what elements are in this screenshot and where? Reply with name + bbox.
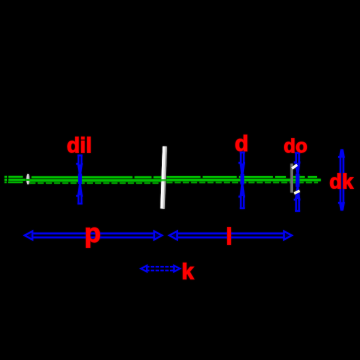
svg-text:k: k	[182, 259, 195, 284]
break tick bottom (white)	[294, 191, 299, 194]
focal plane gray bar	[290, 164, 293, 193]
svg-text:p: p	[84, 218, 101, 248]
beam axis line (left)	[5, 179, 26, 181]
break tick top (white)	[292, 165, 297, 169]
dimension arrow k (horizontal, small, below)	[141, 266, 180, 272]
beam top edge (right, part 2)	[293, 176, 317, 178]
dimension arrow do (vertical, at focal plane)	[294, 153, 301, 211]
main lens	[160, 146, 166, 209]
small collimating lens	[26, 174, 29, 185]
beam axis (right, bright)	[167, 179, 321, 181]
beam axis across main lens (faint)	[161, 179, 167, 181]
svg-text:l: l	[226, 223, 232, 249]
beam through small lens	[26, 179, 30, 181]
beam bottom edge (left)	[5, 181, 23, 183]
beam top edge (left)	[5, 176, 23, 178]
dimension arrow p (horizontal, left)	[25, 231, 162, 239]
dimension arrow dk (vertical, far right)	[338, 149, 345, 210]
dimension arrow d (vertical, at beam after lens)	[239, 153, 246, 209]
glow under middle axis	[30, 178, 162, 182]
beam top edge (right, part 1)	[167, 176, 286, 178]
svg-text:d: d	[235, 131, 249, 156]
laser beam left segment (before small lens)	[5, 177, 26, 183]
beam dash-dot lower line (middle)	[30, 182, 161, 184]
svg-text:do: do	[284, 135, 308, 157]
dimension arrow dil (vertical, at beam before lens)	[76, 155, 83, 203]
svg-text:dk: dk	[329, 170, 354, 193]
svg-text:dil: dil	[67, 134, 92, 158]
glow under right axis	[167, 178, 321, 182]
beam middle segment (between lenses)	[30, 177, 162, 183]
beam dash-dot lower line (right)	[167, 181, 319, 183]
dimension arrow l (horizontal, right)	[169, 231, 291, 239]
beam top edge (middle)	[32, 176, 162, 178]
beam right segment (after main lens)	[167, 177, 321, 183]
beam axis (middle, bright)	[30, 179, 162, 181]
